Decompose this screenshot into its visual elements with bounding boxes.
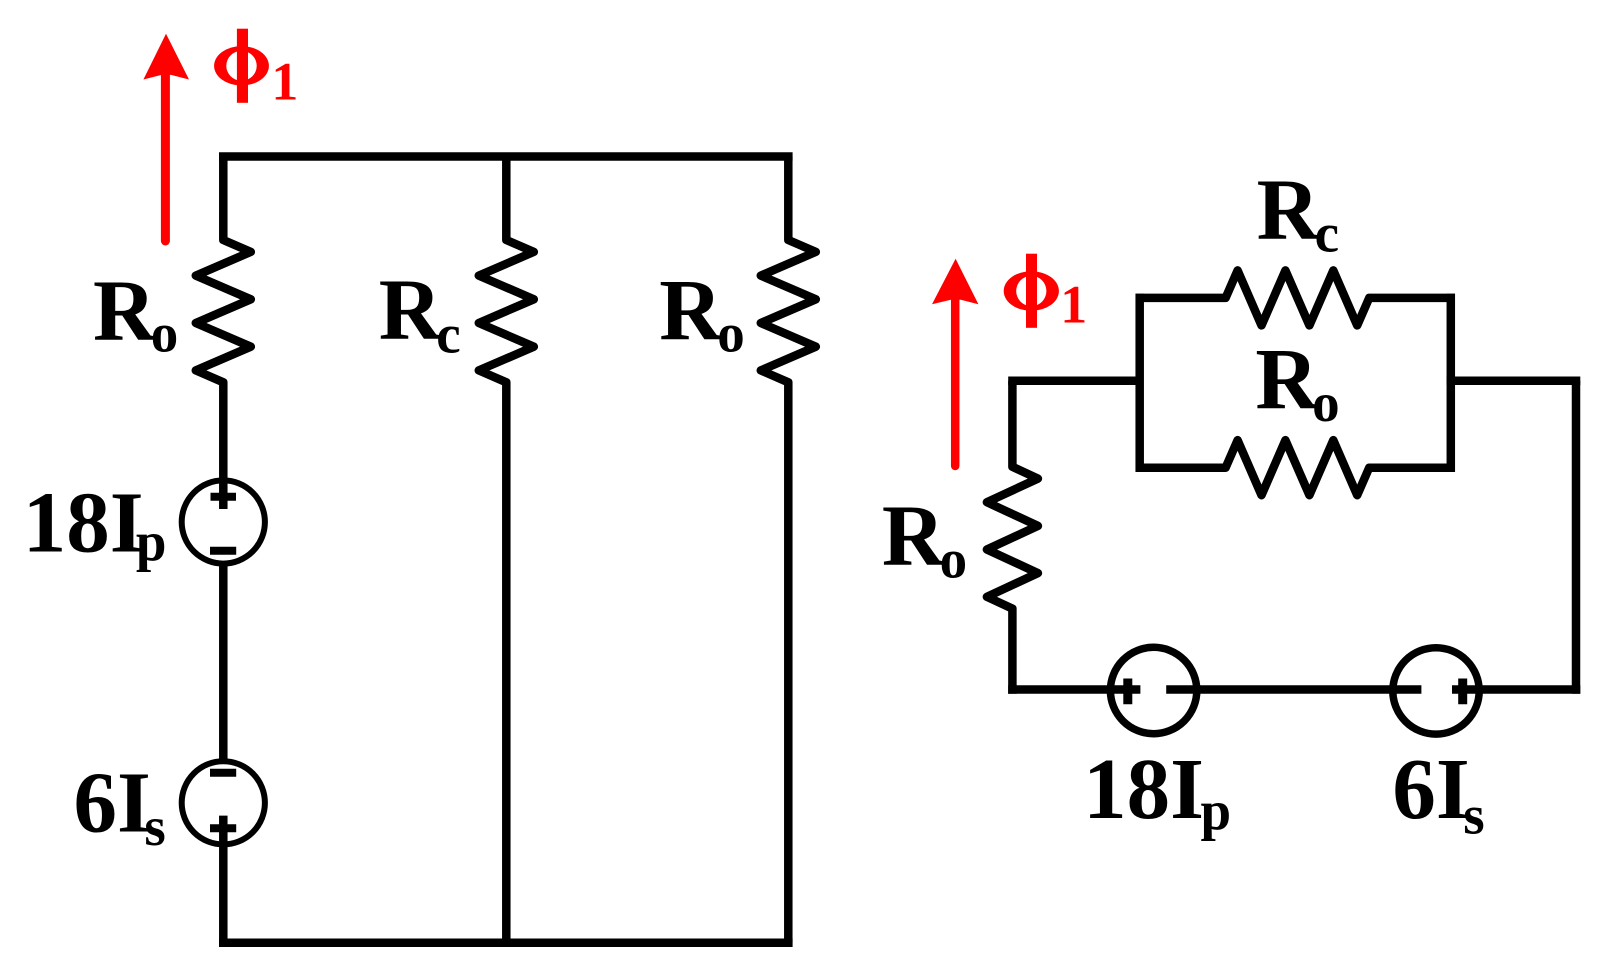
resistor R_c (middle branch) with wires bbox=[479, 157, 534, 943]
wire out of parallel box to right bbox=[1447, 377, 1581, 386]
wire below source 6Is to bottom bus bbox=[219, 816, 228, 947]
source 6Is plus vertical bar bbox=[1458, 679, 1467, 705]
source 6Is circle (left circuit) bbox=[182, 761, 265, 844]
svg-text:c: c bbox=[436, 303, 460, 364]
svg-text:s: s bbox=[144, 796, 165, 857]
wire + resistor R_o vertical (right circuit left branch) bbox=[987, 381, 1038, 694]
svg-text:p: p bbox=[1201, 781, 1232, 842]
source 6Is circle (right circuit) bbox=[1393, 648, 1479, 734]
wire top bus (left circuit) bbox=[219, 152, 793, 161]
svg-text:R: R bbox=[379, 261, 443, 358]
svg-text:1: 1 bbox=[271, 52, 298, 112]
svg-text:o: o bbox=[151, 303, 179, 364]
wire bottom bus (left circuit) bbox=[219, 939, 793, 948]
wire into parallel box (right circuit) bbox=[1008, 377, 1139, 386]
source 18Ip plus vertical bar bbox=[1123, 679, 1132, 705]
svg-text:18I: 18I bbox=[1083, 740, 1204, 837]
source 18Ip circle (left circuit) bbox=[182, 480, 265, 563]
label phi1 (left circuit, red) bbox=[214, 29, 269, 103]
svg-text:R: R bbox=[1257, 161, 1321, 258]
flux arrow phi1 (left circuit) bbox=[143, 34, 189, 241]
svg-text:18I: 18I bbox=[23, 474, 144, 571]
svg-text:R: R bbox=[659, 261, 723, 358]
svg-text:1: 1 bbox=[1060, 275, 1087, 335]
source 18Ip circle (right circuit) bbox=[1110, 647, 1196, 733]
svg-text:o: o bbox=[940, 529, 968, 590]
flux arrow phi1 (right circuit) bbox=[932, 259, 978, 466]
svg-text:s: s bbox=[1463, 785, 1484, 846]
bottom wire left segment into source 18Ip bbox=[1008, 685, 1140, 694]
svg-text:o: o bbox=[1312, 372, 1340, 433]
svg-text:c: c bbox=[1315, 203, 1339, 264]
svg-text:o: o bbox=[717, 303, 745, 364]
svg-text:6I: 6I bbox=[1392, 740, 1469, 837]
svg-text:R: R bbox=[93, 261, 157, 358]
parallel box top branch with resistor R_c bbox=[1136, 270, 1456, 325]
source 6Is plus sign bbox=[210, 824, 236, 832]
bottom wire middle segment into source 6Is bbox=[1166, 685, 1421, 694]
svg-text:R: R bbox=[882, 487, 946, 584]
wire between source 18Ip and source 6Is bbox=[219, 563, 228, 762]
resistor R_o (right branch) with wires bbox=[761, 157, 816, 943]
wire left branch upper + resistor R_o (left) bbox=[196, 157, 251, 510]
svg-text:6I: 6I bbox=[74, 754, 151, 851]
parallel box bottom branch with resistor R_o bbox=[1136, 440, 1456, 495]
svg-text:p: p bbox=[136, 511, 167, 572]
source 18Ip minus sign bbox=[210, 547, 236, 555]
bottom wire right segment bbox=[1452, 685, 1580, 694]
source 6Is minus sign bbox=[210, 769, 236, 777]
right vertical wire (right circuit) bbox=[1572, 381, 1581, 694]
source 18Ip plus sign bbox=[211, 493, 237, 501]
label phi1 (right circuit, red) bbox=[1004, 254, 1059, 328]
svg-text:R: R bbox=[1255, 330, 1319, 427]
parallel box left vertical wire bbox=[1135, 294, 1144, 472]
parallel box right vertical wire bbox=[1447, 294, 1456, 472]
